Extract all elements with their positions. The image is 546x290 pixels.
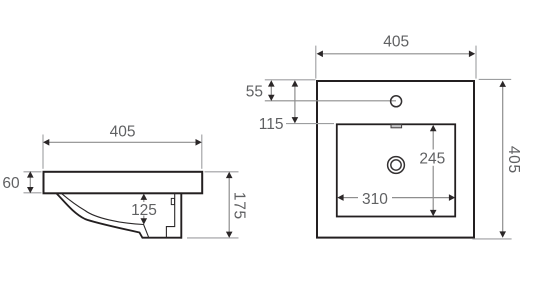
svg-text:310: 310 — [362, 191, 388, 208]
svg-text:125: 125 — [131, 202, 157, 219]
svg-text:405: 405 — [505, 146, 522, 174]
svg-text:405: 405 — [383, 34, 409, 51]
svg-text:115: 115 — [259, 116, 284, 133]
svg-text:245: 245 — [419, 150, 445, 167]
svg-text:55: 55 — [246, 84, 263, 101]
svg-text:405: 405 — [110, 124, 136, 141]
svg-text:60: 60 — [2, 175, 20, 192]
svg-text:175: 175 — [231, 192, 248, 220]
